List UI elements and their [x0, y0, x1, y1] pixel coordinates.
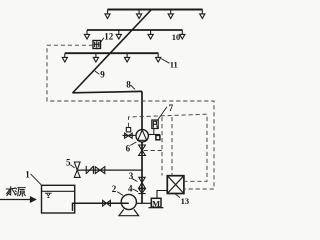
- svg-text:13: 13: [181, 196, 190, 206]
- svg-text:11: 11: [170, 60, 178, 70]
- svg-text:5: 5: [66, 157, 71, 167]
- svg-text:7: 7: [169, 103, 174, 113]
- svg-text:4: 4: [128, 184, 133, 194]
- svg-text:3: 3: [129, 171, 134, 181]
- svg-text:1: 1: [25, 170, 30, 180]
- svg-text:6: 6: [126, 144, 131, 154]
- svg-text:M: M: [152, 198, 160, 208]
- svg-text:12: 12: [104, 32, 114, 42]
- svg-text:2: 2: [112, 184, 117, 194]
- svg-text:10: 10: [172, 32, 181, 42]
- svg-text:9: 9: [100, 70, 105, 80]
- svg-text:8: 8: [126, 80, 131, 90]
